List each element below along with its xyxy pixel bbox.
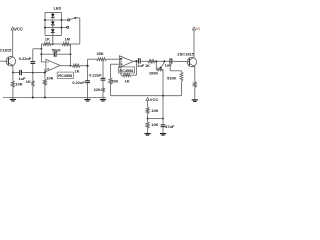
wire U1B output (133, 60, 138, 62)
svg-text:1uF: 1uF (137, 63, 145, 68)
wire LED rung 1 (45, 11, 62, 13)
resistor R3 10K to ground (44, 69, 54, 98)
svg-text:1M: 1M (65, 36, 70, 41)
resistor R12 510K bias (167, 71, 183, 96)
resistor R7 25K series (88, 51, 120, 60)
svg-text:1K: 1K (75, 69, 80, 74)
node U1B output tap (135, 60, 137, 62)
wire C2 to op-amp input node (22, 72, 45, 74)
svg-text:1K: 1K (26, 79, 31, 84)
resistor R5 1M feedback (53, 36, 80, 45)
wire LED rung 4 (45, 34, 62, 36)
svg-text:VCC: VCC (14, 26, 23, 31)
svg-text:0.22uF: 0.22uF (72, 80, 85, 85)
svg-text:25K: 25K (97, 51, 104, 56)
node 50pF left (40, 53, 42, 55)
wire bias rail corner to 510K (181, 95, 183, 97)
node wiper tap (163, 60, 165, 62)
node divider mid left (147, 118, 149, 120)
LED D2 (51, 20, 55, 28)
capacitor C9 0.22uF to ground (72, 66, 90, 98)
wire switch pole (75, 18, 80, 44)
ground symbol 47uF (160, 132, 166, 136)
capacitor C7 1uF to Q2 (165, 58, 173, 67)
svg-text:0.22uF: 0.22uF (89, 73, 102, 78)
node rung3 right (61, 27, 63, 29)
wire divider node link (148, 118, 163, 120)
node R3 at ground rail (44, 97, 46, 99)
capacitor C4 50pF feedback (41, 47, 70, 57)
ground symbol under Q1 leg (10, 98, 16, 102)
resistor R11 1K to volume (140, 60, 170, 68)
node Q1 emitter junction (12, 72, 14, 74)
svg-text:2SC1815: 2SC1815 (0, 47, 12, 52)
svg-text:RC4558: RC4558 (58, 74, 72, 78)
ground symbol Q2 emitter (192, 98, 198, 102)
node bias rail 47uF tap (162, 95, 164, 97)
wire U1B non-inverting input (111, 63, 120, 65)
power VCC symbol (left) (11, 26, 23, 31)
wire C7 to Q2 base (172, 60, 190, 62)
node R2 at ground rail (32, 97, 34, 99)
wire LED rung 2 (45, 19, 62, 21)
svg-text:220: 220 (94, 87, 101, 92)
node rung2 left (44, 19, 46, 21)
wire VCC to Q2 collector (193, 30, 195, 57)
resistor R14 10K divider top (146, 101, 158, 119)
capacitor C6 1uF output (137, 58, 145, 68)
potentiometer VR1 100K volume (149, 68, 163, 96)
wire corner up to 25K (86, 59, 88, 67)
wire 47uF column from bias rail (162, 96, 164, 125)
transistor Q2 2SC1815 (177, 52, 196, 67)
svg-text:47uF: 47uF (165, 124, 175, 129)
svg-text:1K: 1K (45, 37, 50, 42)
svg-text:RC4558: RC4558 (119, 69, 133, 73)
label U1A RC4558 box (57, 72, 73, 78)
capacitor C2 1uF coupling (19, 70, 27, 81)
op-amp U1A RC4558 (46, 59, 60, 71)
wire Q1 base input (0, 60, 8, 62)
resistor R13 emitter load Q2 (193, 67, 196, 98)
resistor R8 220 gain leg (94, 80, 105, 97)
op-amp U1B RC4558 (119, 56, 133, 68)
ground symbol mid rail 2 (100, 98, 106, 102)
node rung3 left (44, 27, 46, 29)
resistor R6 1K series (72, 64, 87, 73)
capacitor C8 47uF bypass (161, 124, 175, 132)
resistor R1 10K emitter load (12, 73, 23, 98)
svg-text:VCC: VCC (150, 97, 159, 102)
wire VCC to Q1 collector (12, 30, 14, 57)
resistor R2 1K shunt (26, 73, 34, 98)
wire inverting rail (40, 44, 42, 62)
svg-text:1uF: 1uF (165, 62, 173, 67)
svg-text:10K: 10K (151, 108, 158, 113)
wiper arrow VR1 (160, 61, 165, 68)
svg-text:10K: 10K (111, 79, 118, 84)
resistor R10 1K feedback U1B (121, 59, 136, 84)
node rung2 right (61, 19, 63, 21)
resistor R4 1K feedback (41, 37, 52, 46)
ground symbol divider (145, 132, 151, 136)
wire pot left terminal (155, 61, 157, 69)
resistor R15 10K divider bottom (146, 119, 158, 132)
svg-text:1K: 1K (145, 63, 150, 68)
wire LED ladder left rail (44, 12, 46, 35)
label U1B RC4558 box (118, 67, 134, 73)
node R3 junction (44, 72, 46, 74)
svg-text:LED: LED (54, 7, 62, 11)
wire C7 tap down (169, 65, 171, 71)
wire LED rung 3 (45, 27, 62, 29)
node pot left tap (155, 60, 157, 62)
resistor R9 10K bias (109, 64, 118, 96)
transistor Q1 2SC1815 (0, 47, 16, 66)
wire tap to 510K (170, 70, 181, 72)
wire feedback to output (69, 44, 71, 66)
capacitor C5 0.22uF gain leg (89, 59, 105, 80)
node 1K shunt junction (32, 72, 34, 74)
switch SW1 wiper (70, 17, 76, 20)
node feedback output tap (69, 65, 71, 67)
svg-text:10K: 10K (15, 82, 22, 87)
node divider mid right (162, 118, 164, 120)
label LED (54, 7, 62, 11)
node C3 to inverting rail (40, 48, 42, 50)
wire Q1 emitter down (12, 66, 14, 73)
wire LED ladder right rail (61, 12, 63, 35)
power VCC symbol (divider) (146, 97, 158, 102)
switch SW1 contact a (62, 19, 70, 21)
wire emitter node to C2 (13, 72, 20, 74)
node 50pF right (69, 53, 71, 55)
ground rail (left) (3, 97, 106, 99)
switch SW1 contact b (62, 26, 69, 28)
capacitor C3 0.22uF (19, 49, 42, 73)
LED D3 (51, 28, 55, 36)
LED D1 (51, 12, 55, 20)
power VCC symbol (right) (192, 26, 204, 31)
svg-text:10K: 10K (151, 122, 158, 127)
svg-text:10K: 10K (46, 76, 53, 81)
wire U1A inverting input (41, 61, 46, 63)
wire LED string to feedback node (52, 35, 54, 44)
wire U1A output (60, 65, 72, 67)
svg-text:50pF: 50pF (52, 47, 62, 52)
svg-text:510K: 510K (167, 75, 176, 80)
svg-text:1K: 1K (125, 79, 130, 84)
svg-text:0.22uF: 0.22uF (19, 56, 32, 61)
ground symbol mid rail 1 (84, 98, 90, 102)
node U1B feedback input (120, 58, 122, 60)
wire bias rail (111, 95, 182, 97)
svg-text:VCC: VCC (196, 26, 200, 31)
svg-text:100K: 100K (149, 70, 158, 75)
svg-text:2SC1815: 2SC1815 (177, 52, 194, 57)
node LED string tap (52, 43, 54, 45)
